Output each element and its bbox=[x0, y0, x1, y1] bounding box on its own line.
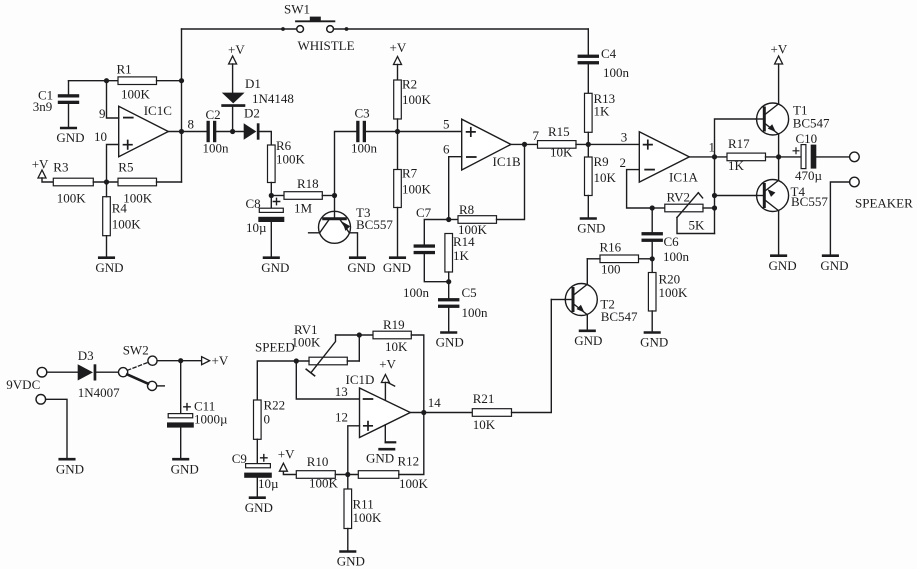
svg-text:GND: GND bbox=[383, 260, 411, 275]
svg-text:D2: D2 bbox=[244, 106, 260, 121]
svg-text:SPEED: SPEED bbox=[255, 340, 295, 355]
svg-text:1N4007: 1N4007 bbox=[78, 385, 120, 400]
svg-text:C3: C3 bbox=[355, 105, 370, 120]
svg-text:C5: C5 bbox=[462, 285, 477, 300]
svg-text:100n: 100n bbox=[203, 141, 230, 156]
svg-text:WHISTLE: WHISTLE bbox=[298, 38, 355, 53]
svg-text:10K: 10K bbox=[473, 417, 496, 432]
svg-text:R14: R14 bbox=[453, 234, 475, 249]
svg-text:100n: 100n bbox=[462, 305, 489, 320]
svg-text:GND: GND bbox=[56, 461, 84, 476]
svg-text:R21: R21 bbox=[473, 391, 495, 406]
svg-text:RV2: RV2 bbox=[667, 190, 691, 205]
svg-text:100K: 100K bbox=[57, 190, 86, 205]
svg-text:+V: +V bbox=[771, 42, 788, 57]
svg-text:R16: R16 bbox=[600, 240, 622, 255]
svg-text:10: 10 bbox=[94, 129, 107, 144]
svg-text:IC1A: IC1A bbox=[669, 170, 699, 185]
svg-text:SPEAKER: SPEAKER bbox=[855, 196, 913, 211]
svg-text:BC547: BC547 bbox=[793, 116, 830, 131]
svg-text:C4: C4 bbox=[601, 46, 617, 61]
svg-text:100: 100 bbox=[601, 262, 621, 277]
svg-text:470µ: 470µ bbox=[795, 168, 823, 183]
svg-text:100K: 100K bbox=[399, 476, 429, 491]
svg-text:1000µ: 1000µ bbox=[194, 411, 228, 426]
svg-text:+V: +V bbox=[228, 42, 245, 57]
svg-text:1K: 1K bbox=[728, 158, 745, 173]
svg-text:+V: +V bbox=[379, 357, 396, 372]
svg-text:100K: 100K bbox=[402, 92, 432, 107]
svg-text:R19: R19 bbox=[383, 317, 405, 332]
svg-text:100K: 100K bbox=[659, 285, 689, 300]
svg-text:1K: 1K bbox=[453, 248, 470, 263]
svg-text:BC547: BC547 bbox=[601, 309, 638, 324]
svg-text:100K: 100K bbox=[112, 216, 142, 231]
svg-text:100K: 100K bbox=[309, 476, 339, 491]
svg-text:GND: GND bbox=[574, 333, 602, 348]
svg-text:R15: R15 bbox=[548, 124, 570, 139]
svg-text:GND: GND bbox=[366, 450, 394, 465]
svg-text:R9: R9 bbox=[594, 154, 609, 169]
svg-text:GND: GND bbox=[171, 461, 199, 476]
svg-text:8: 8 bbox=[188, 117, 195, 132]
svg-text:3: 3 bbox=[621, 129, 628, 144]
svg-text:GND: GND bbox=[95, 260, 123, 275]
svg-text:9: 9 bbox=[99, 106, 106, 121]
svg-text:R10: R10 bbox=[307, 454, 329, 469]
svg-text:GND: GND bbox=[436, 335, 464, 350]
svg-text:BC557: BC557 bbox=[791, 194, 828, 209]
svg-text:+V: +V bbox=[32, 156, 49, 171]
svg-text:100n: 100n bbox=[663, 249, 690, 264]
svg-text:GND: GND bbox=[577, 221, 605, 236]
svg-text:100n: 100n bbox=[403, 285, 430, 300]
svg-text:R4: R4 bbox=[112, 201, 128, 216]
svg-text:+V: +V bbox=[278, 446, 295, 461]
svg-text:SW1: SW1 bbox=[284, 2, 310, 17]
svg-text:GND: GND bbox=[347, 260, 375, 275]
svg-text:5K: 5K bbox=[689, 218, 706, 233]
svg-text:GND: GND bbox=[261, 260, 289, 275]
svg-text:1N4148: 1N4148 bbox=[252, 91, 294, 106]
svg-text:+V: +V bbox=[212, 353, 229, 368]
svg-text:IC1D: IC1D bbox=[346, 372, 375, 387]
svg-text:100K: 100K bbox=[402, 181, 432, 196]
svg-text:+V: +V bbox=[390, 40, 407, 55]
svg-text:100n: 100n bbox=[351, 141, 378, 156]
svg-text:R17: R17 bbox=[728, 136, 750, 151]
svg-text:10K: 10K bbox=[385, 339, 408, 354]
svg-text:10µ: 10µ bbox=[258, 476, 279, 491]
svg-text:R3: R3 bbox=[53, 160, 68, 175]
svg-text:100K: 100K bbox=[353, 510, 383, 525]
svg-text:C8: C8 bbox=[246, 196, 261, 211]
svg-text:10µ: 10µ bbox=[246, 220, 267, 235]
svg-text:100K: 100K bbox=[123, 190, 153, 205]
svg-text:100K: 100K bbox=[292, 334, 322, 349]
svg-text:BC557: BC557 bbox=[356, 217, 393, 232]
svg-text:R7: R7 bbox=[402, 166, 418, 181]
svg-text:GND: GND bbox=[640, 335, 668, 350]
svg-text:D1: D1 bbox=[245, 76, 261, 91]
svg-text:GND: GND bbox=[245, 500, 273, 515]
svg-text:5: 5 bbox=[443, 117, 450, 132]
svg-text:R5: R5 bbox=[118, 160, 133, 175]
svg-text:C2: C2 bbox=[206, 107, 221, 122]
svg-text:R18: R18 bbox=[297, 176, 319, 191]
svg-text:100K: 100K bbox=[121, 87, 151, 102]
svg-text:3n9: 3n9 bbox=[33, 99, 53, 114]
svg-text:14: 14 bbox=[428, 395, 442, 410]
svg-text:GND: GND bbox=[337, 554, 365, 569]
svg-text:C10: C10 bbox=[796, 131, 818, 146]
svg-text:IC1C: IC1C bbox=[144, 103, 172, 118]
svg-text:SW2: SW2 bbox=[123, 342, 149, 357]
svg-text:R1: R1 bbox=[117, 62, 132, 77]
svg-text:R2: R2 bbox=[402, 76, 417, 91]
svg-text:GND: GND bbox=[56, 130, 84, 145]
svg-text:IC1B: IC1B bbox=[493, 154, 522, 169]
svg-text:R12: R12 bbox=[398, 453, 420, 468]
svg-text:10K: 10K bbox=[550, 145, 573, 160]
svg-text:6: 6 bbox=[443, 142, 450, 157]
svg-text:12: 12 bbox=[335, 410, 348, 425]
svg-text:GND: GND bbox=[769, 258, 797, 273]
svg-text:1M: 1M bbox=[294, 201, 313, 216]
svg-text:C6: C6 bbox=[664, 234, 680, 249]
svg-text:R8: R8 bbox=[459, 202, 474, 217]
svg-text:0: 0 bbox=[264, 411, 271, 426]
svg-text:1K: 1K bbox=[594, 104, 611, 119]
svg-text:C9: C9 bbox=[232, 451, 247, 466]
svg-text:10K: 10K bbox=[594, 170, 617, 185]
svg-text:C7: C7 bbox=[416, 205, 432, 220]
svg-text:D3: D3 bbox=[78, 348, 94, 363]
svg-text:100n: 100n bbox=[603, 65, 630, 80]
svg-text:9VDC: 9VDC bbox=[6, 377, 40, 392]
svg-text:2: 2 bbox=[620, 155, 627, 170]
svg-text:100K: 100K bbox=[276, 151, 306, 166]
svg-text:GND: GND bbox=[820, 258, 848, 273]
